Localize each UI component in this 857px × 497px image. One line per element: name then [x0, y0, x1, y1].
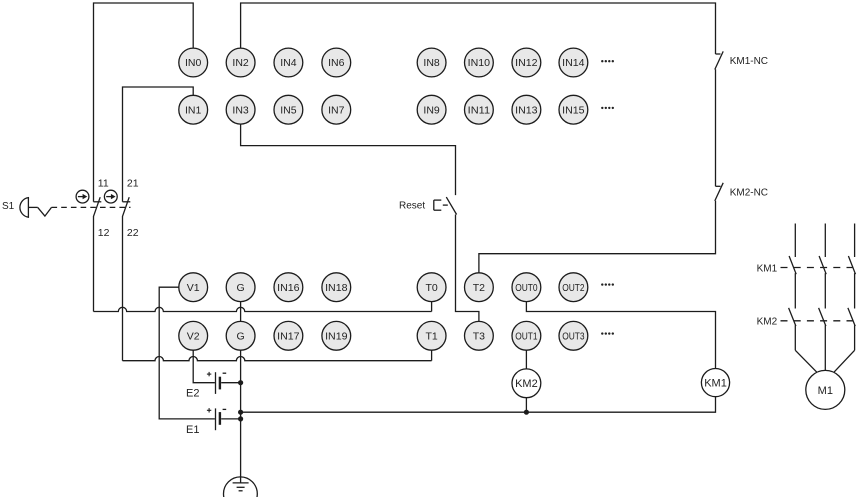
- svg-text:KM1-NC: KM1-NC: [730, 56, 768, 67]
- terminal T3: [465, 321, 494, 350]
- pin label 11: [98, 178, 109, 190]
- contact S1 21-22 blade: [122, 197, 129, 217]
- label S1: [2, 201, 15, 212]
- svg-text:IN6: IN6: [328, 57, 345, 69]
- contact KM1-NC blade: [715, 51, 723, 69]
- svg-text:IN15: IN15: [562, 104, 585, 116]
- wire V1 to battery E1 positive: [159, 287, 215, 419]
- svg-text:M1: M1: [818, 385, 833, 397]
- terminal T2: [465, 273, 494, 302]
- svg-text:KM1: KM1: [757, 263, 778, 274]
- junction G/E2 node: [238, 380, 243, 385]
- pin label 12: [98, 227, 110, 239]
- svg-text:22: 22: [127, 227, 139, 239]
- terminal IN18: [322, 273, 351, 302]
- wire battery E1 negative to G net: [221, 418, 240, 420]
- ellipsis continuation dots row2: [601, 107, 614, 109]
- svg-text:V2: V2: [187, 331, 200, 343]
- svg-text:IN0: IN0: [185, 57, 202, 69]
- svg-text:V1: V1: [187, 282, 200, 294]
- wire G row3 to G row4: [240, 302, 242, 322]
- battery E1 negative plate: [219, 412, 221, 425]
- terminal IN4: [274, 48, 303, 77]
- direct-opening-action symbol right: [104, 190, 117, 203]
- pin label 22: [127, 227, 139, 239]
- ellipsis continuation dots row4: [601, 332, 614, 334]
- battery E1 positive plate: [215, 408, 217, 430]
- wire T1 horizontal rail (hops over crossing wires): [123, 350, 432, 361]
- terminal IN19: [322, 321, 351, 350]
- terminal IN2: [226, 48, 255, 77]
- wire IN1 to contact 21: [123, 87, 194, 202]
- svg-text:T3: T3: [473, 331, 485, 343]
- terminal OUT0: [512, 273, 541, 302]
- wire G to earth ground: [240, 350, 242, 483]
- contact Reset blade (NO): [446, 197, 456, 214]
- label Reset: [399, 201, 425, 212]
- wire IN2 top rail to KM1-NC: [241, 3, 716, 54]
- pushbutton Reset actuator: [434, 200, 448, 210]
- pin label 21: [127, 178, 139, 190]
- wire IN3 to Reset switch: [241, 124, 456, 195]
- terminal G row4: [226, 321, 255, 350]
- terminal IN16: [274, 273, 303, 302]
- terminal IN9: [417, 95, 446, 124]
- terminal V1: [179, 273, 208, 302]
- wire T2 to KM2-NC: [479, 201, 716, 273]
- battery E2 polarity marks: [207, 372, 226, 376]
- terminal IN17: [274, 321, 303, 350]
- terminal T0: [417, 273, 446, 302]
- direct-opening-action symbol left: [76, 190, 89, 203]
- coil KM2: [512, 369, 541, 398]
- terminal IN15: [559, 95, 588, 124]
- junction KM2-coil/bottom-rail node: [524, 410, 529, 415]
- terminal IN14: [559, 48, 588, 77]
- three-phase lines between KM1 and KM2 contacts: [795, 273, 854, 308]
- contact S1 11-12 blade: [93, 197, 100, 217]
- svg-text:IN3: IN3: [232, 104, 249, 116]
- terminal V2: [179, 321, 208, 350]
- svg-text:IN17: IN17: [277, 331, 300, 343]
- svg-text:S1: S1: [2, 201, 15, 212]
- terminal IN6: [322, 48, 351, 77]
- mechanical link dashed line S1 to contacts: [52, 206, 131, 208]
- wire Reset to T3: [456, 215, 479, 322]
- terminal IN11: [465, 95, 494, 124]
- svg-text:IN14: IN14: [562, 57, 585, 69]
- svg-text:IN4: IN4: [280, 57, 297, 69]
- mechanical link KM1 contacts: [781, 267, 857, 269]
- pushbutton S1 latch linkage: [38, 207, 52, 216]
- svg-text:OUT3: OUT3: [562, 331, 585, 343]
- terminal IN1: [179, 95, 208, 124]
- svg-text:11: 11: [98, 178, 109, 190]
- wire KM1-NC to KM2-NC: [715, 69, 717, 186]
- svg-text:KM2: KM2: [757, 316, 778, 327]
- svg-text:KM2-NC: KM2-NC: [730, 187, 768, 198]
- battery E1 polarity marks: [207, 408, 226, 412]
- terminal IN5: [274, 95, 303, 124]
- ellipsis continuation dots row3: [601, 283, 614, 285]
- wire T0 horizontal rail (hops over crossing wires): [94, 302, 432, 312]
- label KM1-NC: [730, 56, 768, 67]
- contact KM1-NC fixed terminal: [716, 53, 721, 55]
- wire KM2 coil to bottom rail: [525, 398, 527, 413]
- terminal IN7: [322, 95, 351, 124]
- svg-text:12: 12: [98, 227, 110, 239]
- terminal OUT3: [559, 321, 588, 350]
- svg-text:OUT0: OUT0: [515, 282, 538, 294]
- wire bottom rail G net to KM1 coil: [241, 397, 716, 412]
- contactor KM1 main contact blades: [789, 256, 855, 274]
- svg-text:IN12: IN12: [515, 57, 538, 69]
- svg-text:E1: E1: [186, 424, 199, 436]
- svg-text:IN13: IN13: [515, 104, 538, 116]
- svg-text:G: G: [237, 282, 245, 294]
- terminal IN8: [417, 48, 446, 77]
- svg-text:IN8: IN8: [423, 57, 440, 69]
- svg-text:T2: T2: [473, 282, 485, 294]
- svg-text:IN16: IN16: [277, 282, 300, 294]
- terminal IN13: [512, 95, 541, 124]
- battery E2 negative plate: [219, 377, 221, 390]
- contactor KM2 main contact blades: [789, 308, 856, 326]
- svg-text:IN10: IN10: [468, 57, 491, 69]
- terminal IN12: [512, 48, 541, 77]
- svg-text:OUT1: OUT1: [515, 331, 538, 343]
- label E2: [186, 388, 199, 400]
- svg-text:Reset: Reset: [399, 201, 425, 212]
- label E1: [186, 424, 199, 436]
- svg-text:IN19: IN19: [325, 331, 348, 343]
- terminal IN10: [465, 48, 494, 77]
- terminal OUT1: [512, 321, 541, 350]
- contact KM2-NC fixed terminal: [716, 185, 721, 187]
- wire OUT0 to KM1 coil: [526, 302, 715, 369]
- svg-text:KM2: KM2: [515, 378, 538, 390]
- svg-text:21: 21: [127, 178, 139, 190]
- motor M1: [806, 370, 845, 409]
- wire OUT1 to KM2 coil: [525, 350, 527, 369]
- wire battery E2 negative to G net: [221, 382, 240, 384]
- wire contact 12 to T0 rail: [93, 217, 95, 312]
- svg-text:G: G: [237, 331, 245, 343]
- junction G/bottom-rail node: [238, 410, 243, 415]
- wire IN0 to contact 11 top rail: [94, 3, 194, 202]
- three-phase lines below KM2 to motor: [795, 325, 854, 372]
- terminal OUT2: [559, 273, 588, 302]
- mechanical link KM2 contacts: [781, 320, 857, 322]
- coil KM1: [701, 369, 729, 397]
- svg-text:T0: T0: [425, 282, 437, 294]
- label KM2-NC: [730, 187, 768, 198]
- svg-text:IN9: IN9: [423, 104, 440, 116]
- terminal G row3: [226, 273, 255, 302]
- svg-text:IN5: IN5: [280, 104, 297, 116]
- wire contact 22 to T1 rail: [122, 217, 124, 361]
- terminal T1: [417, 321, 446, 350]
- terminal IN0: [179, 48, 208, 77]
- wire V2 to battery E2 positive: [193, 350, 215, 383]
- svg-text:IN1: IN1: [185, 104, 202, 116]
- pushbutton S1 mushroom head: [20, 198, 38, 218]
- svg-text:IN18: IN18: [325, 282, 348, 294]
- battery E2 positive plate: [215, 372, 217, 394]
- label KM2 (main contacts): [757, 316, 778, 327]
- ellipsis continuation dots row1: [601, 60, 614, 62]
- contact S1 21-22 fixed terminal: [123, 201, 131, 203]
- earth ground symbol: [224, 477, 258, 497]
- label KM1 (main contacts): [757, 263, 778, 274]
- junction G/E1 node: [238, 416, 243, 421]
- contact S1 11-12 fixed terminal: [94, 201, 102, 203]
- svg-text:KM1: KM1: [704, 377, 727, 389]
- svg-text:E2: E2: [186, 388, 199, 400]
- svg-text:OUT2: OUT2: [562, 282, 585, 294]
- contact KM2-NC blade: [715, 183, 723, 201]
- three-phase supply lines upper: [795, 224, 854, 258]
- svg-text:T1: T1: [425, 331, 437, 343]
- terminal IN3: [226, 95, 255, 124]
- svg-text:IN7: IN7: [328, 104, 345, 116]
- svg-text:IN11: IN11: [468, 104, 491, 116]
- svg-text:IN2: IN2: [232, 57, 249, 69]
